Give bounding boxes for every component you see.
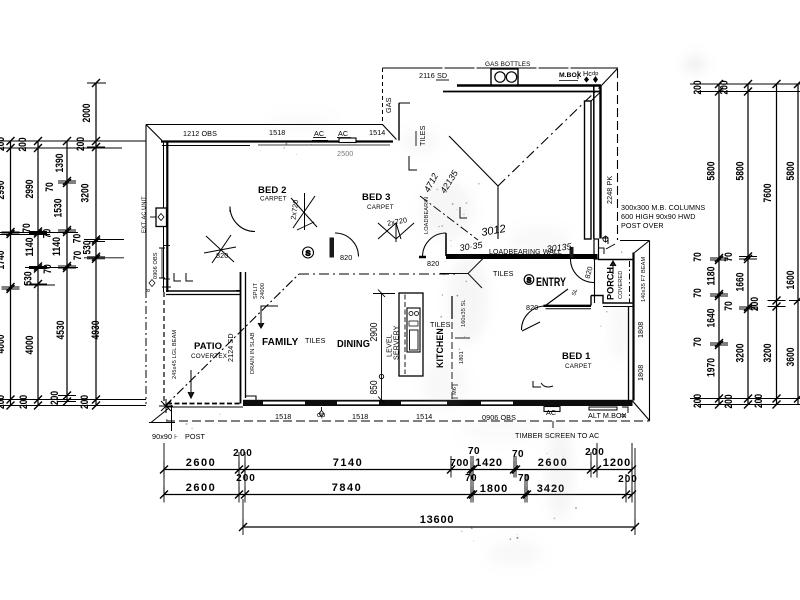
hw 3012	[480, 223, 506, 239]
patio west dashed edge	[163, 292, 165, 405]
svg-text:2900: 2900	[369, 322, 380, 341]
ridge diagonal to entry wing	[420, 196, 478, 240]
kitchen island bench	[399, 293, 423, 376]
room label family	[262, 337, 299, 348]
svg-text:1970: 1970	[706, 358, 718, 377]
left dim line 2	[17, 137, 47, 410]
svg-text:1660: 1660	[735, 273, 747, 292]
svg-text:4930: 4930	[90, 321, 102, 340]
svg-text:1514: 1514	[416, 412, 432, 421]
90x90 post label	[152, 432, 205, 441]
svg-text:CARPET: CARPET	[565, 363, 592, 370]
ac units on top wall	[312, 138, 356, 143]
patio drain arrow	[258, 306, 278, 328]
svg-text:1140: 1140	[24, 238, 36, 257]
wall top right (gas/meter wall)	[443, 86, 601, 92]
roof eave outline left top	[146, 124, 383, 126]
roof eave bottom dashed	[166, 420, 650, 422]
svg-text:200: 200	[18, 395, 30, 409]
svg-text:1801: 1801	[459, 351, 465, 364]
level servery rotated	[387, 325, 401, 360]
mbox label	[559, 69, 598, 83]
valley solid diagonal	[449, 136, 498, 186]
hip line gas nook step	[383, 125, 397, 140]
svg-text:2248 PK: 2248 PK	[605, 176, 614, 204]
svg-text:1180: 1180	[706, 267, 718, 286]
svg-text:200: 200	[236, 473, 256, 484]
svg-text:2500: 2500	[337, 149, 353, 158]
svg-text:70: 70	[692, 288, 704, 298]
window label 0906 obs bottom	[482, 413, 516, 422]
bottom dim row 3	[239, 514, 639, 535]
svg-text:M.BOX: M.BOX	[559, 72, 582, 79]
wall gas nook west	[399, 103, 410, 141]
svg-text:4000: 4000	[24, 336, 36, 355]
svg-text:1800: 1800	[480, 483, 508, 495]
svg-text:S: S	[305, 249, 310, 258]
svg-text:200: 200	[17, 138, 29, 152]
bed1 door leaf and swing	[522, 289, 569, 331]
svg-text:5800: 5800	[735, 162, 747, 181]
svg-text:AC: AC	[546, 408, 556, 417]
850 rotated	[369, 380, 380, 394]
smoke detector entry	[524, 275, 534, 285]
svg-text:AC: AC	[314, 129, 324, 138]
svg-text:1740: 1740	[0, 251, 7, 270]
bed1 robe marks	[533, 381, 553, 387]
roof eave left side	[145, 125, 147, 405]
left dim line 4	[72, 79, 106, 410]
svg-text:8: 8	[146, 289, 152, 292]
bottom witness lines	[164, 443, 635, 529]
svg-text:3200: 3200	[735, 344, 747, 363]
door label 820 bed2	[216, 251, 228, 260]
bed3 door swing	[423, 233, 447, 257]
split 24000 rotated	[253, 282, 266, 299]
roof eave step vertical at gas nook	[382, 68, 384, 125]
door label 820 bed1	[526, 303, 538, 312]
window label 1212 obs	[183, 129, 217, 138]
svg-text:300x300 M.B. COLUMNS: 300x300 M.B. COLUMNS	[621, 203, 705, 212]
svg-text:TILES: TILES	[305, 336, 326, 345]
left dim line 1	[0, 137, 20, 410]
tiles label family	[305, 336, 326, 345]
timber screen label	[515, 431, 599, 440]
svg-text:70: 70	[42, 229, 54, 239]
2124 SD rotated	[226, 333, 235, 362]
tiles label hall rotated	[416, 125, 427, 146]
svg-text:1640: 1640	[706, 309, 718, 328]
svg-text:24000: 24000	[260, 283, 266, 299]
hip line porch top-right corner	[634, 241, 650, 254]
svg-text:70: 70	[692, 337, 704, 347]
1808 labels rotated	[636, 322, 645, 381]
hw 30135	[546, 241, 573, 254]
room label bed2	[258, 185, 287, 203]
svg-text:7600: 7600	[762, 184, 774, 203]
svg-text:AC: AC	[338, 129, 348, 138]
ac label bottom	[546, 408, 556, 417]
valley vertical drop	[497, 186, 499, 239]
svg-text:1808: 1808	[636, 365, 645, 381]
svg-text:CARPET: CARPET	[260, 196, 287, 203]
patio bottom dashed edge	[166, 404, 243, 408]
svg-text:CARPET: CARPET	[367, 204, 394, 211]
tiles label kitchen	[430, 320, 451, 329]
post corner marker	[149, 399, 175, 431]
wall corner diagonal connector	[591, 93, 600, 102]
svg-text:70: 70	[723, 301, 735, 311]
svg-text:SERVERY: SERVERY	[394, 325, 401, 360]
svg-text:S: S	[527, 278, 532, 285]
svg-text:COVERTEX: COVERTEX	[191, 353, 228, 360]
svg-text:2000: 2000	[81, 104, 93, 123]
svg-text:1518: 1518	[352, 412, 368, 421]
svg-text:200: 200	[75, 137, 87, 151]
right dim line D	[785, 80, 800, 405]
svg-text:70: 70	[44, 182, 56, 192]
ridge diagonal to top-right corner	[498, 87, 600, 186]
svg-text:1212 OBS: 1212 OBS	[183, 129, 217, 138]
svg-text:POST: POST	[185, 432, 205, 441]
bench labels rotated kitchen	[452, 299, 467, 395]
wall top bed2/bed3 north	[161, 142, 393, 146]
svg-text:5800: 5800	[706, 162, 718, 181]
meter box marks	[577, 71, 579, 79]
bed1 east wall	[629, 253, 634, 401]
svg-text:820: 820	[427, 259, 439, 268]
roof eave porch top	[620, 240, 650, 242]
svg-text:1808: 1808	[636, 322, 645, 338]
svg-text:2124 SD: 2124 SD	[226, 333, 235, 362]
svg-text:COVERED: COVERED	[618, 271, 624, 299]
columns note	[621, 203, 705, 230]
svg-text:4530: 4530	[55, 321, 67, 340]
right dim line B	[719, 80, 758, 409]
ext AC unit box	[150, 208, 167, 227]
bottom dim row 2	[160, 473, 638, 503]
left dim line 3	[42, 137, 77, 406]
svg-text:BED 3: BED 3	[362, 192, 390, 203]
svg-text:70: 70	[42, 264, 54, 274]
svg-text:3200: 3200	[80, 184, 92, 203]
svg-text:ENTRY: ENTRY	[536, 277, 566, 289]
left wall window 0906 obs	[159, 248, 165, 278]
svg-text:3600: 3600	[785, 348, 797, 367]
faint 2500	[337, 149, 353, 158]
2248 PK rotated	[605, 176, 614, 204]
svg-text:1600: 1600	[785, 271, 797, 290]
window label 1518 bottom left	[275, 412, 291, 421]
gas bottles label	[485, 61, 531, 68]
svg-text:0906 OBS: 0906 OBS	[153, 252, 159, 279]
svg-text:BED 1: BED 1	[562, 351, 591, 362]
dp label bottom	[317, 407, 325, 419]
svg-text:820: 820	[340, 253, 352, 262]
svg-text:200: 200	[692, 81, 704, 95]
left witness lines	[0, 83, 146, 406]
ac bottom rect	[544, 407, 560, 412]
2x720 bed2 rotated	[289, 199, 301, 220]
smoke detector hall	[303, 247, 314, 258]
drain in slab rotated	[250, 332, 256, 374]
entry sidelight tall rectangle	[585, 101, 592, 239]
alt mbox bottom mark	[589, 407, 628, 413]
wall right side east	[594, 86, 601, 259]
hw 30.35	[459, 240, 484, 253]
svg-text:70: 70	[723, 252, 735, 262]
loadbearing wall	[419, 254, 598, 260]
porch arrow up	[610, 261, 616, 274]
svg-text:2116 SD: 2116 SD	[419, 71, 447, 80]
svg-text:BED 2: BED 2	[258, 185, 286, 196]
svg-text:200: 200	[79, 395, 91, 409]
porch dp mark	[598, 238, 608, 254]
svg-text:1530: 1530	[53, 199, 65, 218]
room label patio	[191, 341, 228, 360]
svg-text:2600: 2600	[186, 457, 216, 469]
hip line bottom-right corner	[633, 401, 650, 421]
svg-text:dp: dp	[592, 71, 598, 77]
bed2 wardrobe door arc	[230, 207, 255, 232]
right dim line C	[749, 80, 786, 409]
svg-text:3200: 3200	[762, 344, 774, 363]
svg-text:PORCH: PORCH	[606, 267, 617, 300]
svg-text:TILES: TILES	[493, 269, 514, 278]
svg-text:200: 200	[0, 137, 7, 151]
svg-text:1200: 1200	[603, 457, 631, 469]
porch north wall	[595, 236, 634, 304]
svg-text:200: 200	[49, 391, 61, 405]
svg-text:140x35 F7 BEAM: 140x35 F7 BEAM	[641, 257, 647, 302]
svg-text:1514: 1514	[369, 128, 385, 137]
svg-text:200: 200	[618, 474, 638, 485]
svg-text:200: 200	[719, 81, 731, 95]
svg-text:90x90 ⊦: 90x90 ⊦	[152, 432, 178, 441]
window label 1514 top	[369, 128, 385, 137]
svg-text:13600: 13600	[420, 514, 455, 526]
svg-text:5800: 5800	[785, 162, 797, 181]
beam label rotated	[641, 257, 647, 302]
svg-text:1518: 1518	[269, 128, 285, 137]
svg-text:70: 70	[512, 449, 524, 460]
svg-text:dp: dp	[620, 413, 626, 419]
scan speckles	[166, 141, 635, 541]
svg-text:200: 200	[692, 394, 704, 408]
2900 rotated	[369, 322, 380, 341]
svg-text:200: 200	[585, 447, 605, 458]
right dim line A	[692, 80, 728, 409]
svg-text:GAS BOTTLES: GAS BOTTLES	[485, 61, 531, 68]
tiles corner mark 2	[460, 207, 467, 218]
hw 42135	[438, 168, 460, 195]
wall left side west	[164, 141, 171, 292]
245x45 lgl beam rotated	[172, 330, 178, 379]
svg-text:EXT. AC UNIT: EXT. AC UNIT	[142, 196, 148, 233]
patio north wall	[166, 291, 241, 295]
tiles corner mark hall	[409, 156, 417, 170]
svg-text:70: 70	[468, 446, 480, 457]
svg-text:TILES: TILES	[430, 320, 451, 329]
lgl beam leader arrow	[188, 370, 194, 398]
tiles label entry	[493, 269, 514, 278]
svg-text:LEVEL: LEVEL	[387, 334, 394, 357]
svg-text:245x45 LGL BEAM: 245x45 LGL BEAM	[172, 330, 178, 379]
svg-text:FAMILY: FAMILY	[262, 337, 299, 348]
scan noise smudges	[270, 55, 706, 567]
svg-text:SPLIT: SPLIT	[253, 282, 259, 299]
svg-text:70: 70	[692, 252, 704, 262]
hip line top-right corner	[601, 69, 618, 87]
door label 820 hall right	[427, 259, 439, 268]
roof eave porch right side	[649, 241, 651, 422]
svg-text:200: 200	[753, 394, 765, 408]
left wall lower stubs	[162, 273, 193, 287]
window label 1514 bottom	[416, 412, 432, 421]
0906 obs rotated left wall	[146, 252, 159, 292]
svg-text:2990: 2990	[0, 181, 7, 200]
timber screen leader	[552, 421, 554, 428]
ac labels top	[313, 129, 351, 138]
door label 820 hall left	[340, 253, 352, 262]
bathroom/kitchen wall	[452, 296, 470, 400]
svg-text:850: 850	[369, 380, 380, 394]
svg-text:600 HIGH 90x90 HWD: 600 HIGH 90x90 HWD	[621, 212, 696, 221]
svg-text:820: 820	[216, 251, 228, 260]
room label bed3	[362, 192, 394, 211]
porch south edge	[591, 296, 634, 307]
dining internal dimension line 2900/850	[373, 290, 395, 405]
svg-text:GAS: GAS	[384, 97, 393, 113]
svg-text:70: 70	[21, 223, 33, 233]
bed2 window symbol 2x720	[291, 193, 317, 230]
svg-text:1140: 1140	[51, 237, 63, 256]
svg-text:70: 70	[465, 473, 477, 484]
room label entry	[536, 277, 566, 289]
roof eave top right	[383, 67, 619, 69]
svg-text:2990: 2990	[24, 180, 36, 199]
svg-text:200: 200	[233, 448, 253, 459]
room label dining	[337, 339, 370, 350]
ext ac unit rotated	[142, 196, 148, 233]
svg-text:820: 820	[526, 303, 538, 312]
svg-text:POST OVER: POST OVER	[621, 221, 664, 230]
hip line top-left corner	[147, 125, 163, 141]
bed1 north wall	[544, 306, 592, 309]
gas bottles box	[491, 69, 518, 85]
svg-text:7840: 7840	[332, 482, 362, 494]
room label kitchen rotated	[435, 328, 445, 368]
window label 1518 top	[269, 128, 285, 137]
svg-text:200: 200	[723, 395, 735, 409]
svg-text:4000: 4000	[0, 335, 7, 354]
svg-text:DRAIN IN SLAB: DRAIN IN SLAB	[250, 332, 256, 374]
bed2 starburst mark	[204, 235, 236, 263]
ridge horizontal over hallway	[299, 258, 484, 289]
window label 1518 bottom right	[352, 412, 368, 421]
svg-text:530: 530	[23, 272, 35, 286]
patio/family divider wall	[236, 272, 256, 404]
loadbearing rotated label	[424, 197, 430, 234]
svg-text:70: 70	[72, 251, 84, 261]
svg-text:PATIO: PATIO	[194, 341, 222, 352]
bed2 door leaf and swing	[330, 233, 359, 258]
bottom dim row 1	[160, 446, 636, 478]
south wall of house	[243, 400, 633, 406]
svg-text:DINING: DINING	[337, 339, 370, 350]
roof eave right side	[617, 69, 619, 240]
svg-text:1390: 1390	[54, 154, 66, 173]
svg-text:70: 70	[518, 473, 530, 484]
hw 4712	[422, 172, 440, 194]
alt mbox label	[588, 411, 627, 420]
svg-text:2600: 2600	[186, 482, 216, 494]
2x720 bed3	[386, 215, 407, 227]
porch covered rotated	[606, 267, 625, 300]
ridge hip diagonal from patio post corner	[165, 274, 299, 406]
gas label rotated	[384, 97, 393, 113]
window label 2116 SD	[419, 71, 449, 80]
right witness lines	[690, 84, 800, 405]
svg-text:700: 700	[450, 457, 469, 469]
svg-text:1420: 1420	[475, 457, 503, 469]
svg-text:Hc: Hc	[583, 69, 592, 78]
door label 820 entry rotated	[571, 265, 594, 296]
loadbearing wall label	[489, 249, 562, 256]
room label bed1	[562, 351, 592, 370]
entry front door swing	[570, 247, 595, 283]
svg-text:200: 200	[749, 297, 761, 311]
svg-text:200: 200	[0, 395, 7, 409]
bed3 window symbol 2x720	[378, 223, 414, 242]
svg-text:1518: 1518	[275, 412, 291, 421]
svg-text:7140: 7140	[333, 457, 363, 469]
